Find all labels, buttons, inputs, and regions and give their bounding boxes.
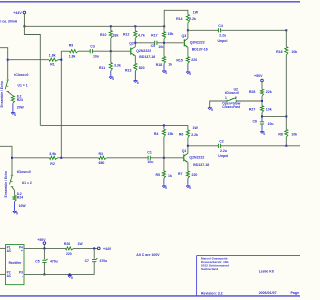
svg-text:3.3k: 3.3k	[114, 63, 121, 67]
wire C6 to ground	[261, 125, 263, 131]
svg-text:C4: C4	[218, 24, 223, 28]
resistor R6 2.2k 1W	[187, 125, 189, 130]
wire R6 to Q1 collector	[187, 138, 189, 146]
svg-text:Q2N2222: Q2N2222	[189, 156, 204, 160]
ground 0 (U2)	[209, 107, 211, 108]
svg-text:R4: R4	[154, 132, 159, 136]
svg-text:3.9k: 3.9k	[49, 152, 56, 156]
wire input A from left edge	[0, 48, 8, 80]
node Q1 collector	[187, 145, 189, 147]
node C4/R16 corner	[285, 29, 287, 31]
wire to R2	[12, 157, 50, 159]
resistor R11 3.3k	[110, 51, 112, 62]
resistor R8 10k	[285, 130, 288, 138]
svg-text:1k: 1k	[168, 174, 172, 178]
svg-text:470u: 470u	[100, 259, 108, 263]
resistor R13 820	[134, 63, 137, 71]
wire Q2 collector to C5	[135, 42, 154, 44]
svg-text:R14: R14	[176, 17, 182, 21]
wire R3 to C1	[107, 157, 148, 159]
svg-text:Switzerland: Switzerland	[201, 267, 218, 271]
svg-text:0: 0	[165, 71, 167, 75]
wire AC in bottom	[0, 273, 6, 275]
svg-text:15k: 15k	[168, 32, 174, 36]
resistor R26 220 1W	[66, 247, 74, 250]
wire C2 to output rail	[221, 145, 300, 147]
svg-text:10u: 10u	[158, 45, 164, 49]
capacitor C4 2.2u Unpol	[217, 28, 219, 32]
wire +44V down	[23, 14, 25, 27]
wire C1 to Q1 base	[150, 157, 183, 159]
ground 0 (R13)	[134, 79, 136, 80]
svg-text:0: 0	[14, 113, 16, 117]
power terminal +44V (supply)	[98, 247, 101, 250]
transistor Q1 Q2N2222 BD137-16	[183, 154, 185, 161]
wire +44V jog down	[24, 26, 40, 125]
switch U1-2 tClose	[11, 174, 13, 176]
wire +44V mid rail	[40, 124, 188, 126]
resistor R27 10k	[260, 106, 263, 113]
title block box	[197, 255, 300, 257]
svg-text:Close=Fast: Close=Fast	[222, 105, 241, 109]
svg-text:+50V: +50V	[37, 238, 46, 242]
wire R27 to node B	[261, 113, 263, 117]
svg-text:R1: R1	[50, 62, 55, 66]
svg-text:680: 680	[99, 161, 105, 165]
power terminal +44V (top)	[23, 11, 26, 14]
resistor R9 1.8k	[70, 50, 79, 53]
svg-text:0: 0	[211, 108, 213, 112]
wire C7 to bottom rail	[24, 262, 94, 274]
schematic page border bottom	[0, 295, 300, 297]
svg-text:2: 2	[235, 96, 237, 100]
svg-text:22k: 22k	[266, 90, 272, 94]
svg-text:1.8k: 1.8k	[49, 54, 56, 58]
svg-text:R16: R16	[276, 50, 282, 54]
svg-text:tClose=0: tClose=0	[17, 170, 31, 174]
svg-text:0: 0	[189, 72, 191, 76]
node R4 top	[163, 124, 165, 126]
svg-text:R18: R18	[156, 63, 162, 67]
node Q2 collector	[134, 42, 136, 44]
wire Q1 emitter to R7	[187, 162, 189, 171]
svg-text:R5: R5	[156, 173, 161, 177]
svg-text:33k: 33k	[113, 34, 119, 38]
wire +50V to R28	[261, 82, 263, 90]
wire rail jog over R14	[164, 10, 188, 26]
node input B	[11, 157, 13, 159]
ground 0 (R18)	[163, 70, 165, 71]
svg-text:C2: C2	[219, 140, 224, 144]
wire C5 to Q3 base	[157, 42, 184, 44]
wire R28 to R27	[261, 96, 263, 106]
capacitor C5 470u (reservoir)	[43, 248, 45, 259]
resistor R7 220	[186, 171, 189, 178]
svg-text:10u: 10u	[268, 122, 274, 126]
rectifier block	[6, 245, 25, 285]
resistor R28 22k	[260, 89, 263, 96]
svg-text:1W: 1W	[193, 10, 199, 14]
svg-text:Q2N2222: Q2N2222	[136, 49, 151, 53]
wire R26 to +44V node	[74, 247, 98, 249]
wire R14 to Q3 collector	[187, 23, 189, 30]
svg-text:10k: 10k	[291, 133, 297, 137]
svg-text:Q3: Q3	[182, 34, 187, 38]
wire rectifier + rail	[24, 247, 66, 249]
svg-text:1W: 1W	[193, 126, 199, 130]
power terminal +50V (mid)	[261, 79, 264, 82]
svg-text:0: 0	[189, 186, 191, 190]
svg-text:+: +	[21, 249, 23, 253]
transistor Q2 Q2N2222 BD137-16	[130, 48, 132, 55]
svg-text:R10: R10	[100, 33, 106, 37]
node R17/R18 divider	[163, 42, 165, 44]
svg-text:R26: R26	[64, 242, 70, 246]
svg-text:10k: 10k	[266, 108, 272, 112]
svg-text:0: 0	[71, 276, 73, 280]
resistor R4 15k	[163, 125, 165, 129]
wire AC in top	[0, 247, 6, 249]
wire R9 to C3	[79, 50, 91, 52]
wire R2 to mix node	[58, 157, 62, 159]
node mix bottom	[60, 157, 62, 159]
svg-text:Unpol: Unpol	[218, 154, 228, 158]
ground 0 (R7)	[187, 185, 189, 186]
wire Q3 emitter to R15	[187, 47, 189, 57]
svg-text:R13: R13	[125, 68, 131, 72]
wire U2 pin1 to ground	[210, 101, 227, 107]
svg-text:BD137-16: BD137-16	[192, 48, 208, 52]
svg-text:Q1: Q1	[182, 149, 187, 153]
wire R8 to output rail	[285, 137, 287, 146]
node R10 top	[110, 25, 112, 27]
switch U1-1 tClose	[7, 79, 9, 81]
svg-text:15k: 15k	[168, 132, 174, 136]
svg-text:C1: C1	[147, 150, 152, 154]
svg-text:470u: 470u	[50, 259, 58, 263]
svg-text:1W: 1W	[78, 242, 84, 246]
capacitor C6 10u	[261, 116, 263, 121]
svg-text:220: 220	[66, 252, 72, 256]
wire R23 to ground	[12, 103, 14, 111]
svg-text:820: 820	[139, 66, 145, 70]
svg-text:R24: R24	[17, 195, 23, 199]
wire +44V rail (top)	[24, 25, 164, 27]
svg-text:BD137-16: BD137-16	[193, 163, 209, 167]
wire to R1	[8, 59, 49, 61]
wire mix vertical	[60, 51, 62, 158]
node +44V rail junction	[23, 25, 25, 27]
svg-text:1: 1	[225, 96, 227, 100]
svg-text:+44V: +44V	[13, 11, 22, 15]
svg-text:2.2u: 2.2u	[219, 34, 226, 38]
wire R18 to ground	[163, 64, 165, 70]
node +44V supply	[93, 247, 95, 249]
svg-text:R9: R9	[69, 44, 74, 48]
capacitor C2 2.2u Unpol	[217, 144, 219, 148]
svg-text:BD137-16: BD137-16	[139, 55, 155, 59]
svg-text:20W: 20W	[17, 105, 25, 109]
resistor R17 15k	[163, 26, 165, 31]
wire R1 to mix node	[58, 59, 61, 61]
svg-text:4.7k: 4.7k	[138, 33, 145, 37]
svg-text:2.2k: 2.2k	[189, 17, 196, 21]
wire node B to R16/R8	[262, 115, 286, 117]
capacitor C7 470u	[93, 248, 95, 258]
wire C4 to R16	[221, 29, 287, 31]
resistor R3 680	[99, 156, 107, 159]
resistor R5 1k	[163, 158, 165, 171]
wire R15 to ground	[187, 63, 189, 70]
svg-text:Q2: Q2	[129, 41, 134, 45]
node C5 bottom	[43, 273, 45, 275]
node rail end / R17 top	[163, 25, 165, 27]
wire Q2 collector	[134, 43, 136, 47]
svg-text:10W: 10W	[19, 204, 27, 208]
svg-text:10u: 10u	[93, 54, 99, 58]
svg-text:Revision: 3.2: Revision: 3.2	[201, 291, 223, 295]
ground 0 (R15)	[187, 71, 189, 72]
svg-text:-: -	[22, 274, 23, 278]
svg-text:C3: C3	[90, 45, 95, 49]
resistor R24 8.2 10W	[13, 196, 16, 202]
svg-text:U1 = 2: U1 = 2	[22, 181, 32, 185]
capacitor C1 10u	[147, 156, 149, 160]
svg-text:Q2N2222: Q2N2222	[190, 41, 205, 45]
wire C3 to Q2 base	[92, 50, 130, 52]
svg-text:C5: C5	[35, 259, 39, 263]
resistor R10 33k	[110, 26, 112, 30]
wire mix to R3	[61, 157, 98, 159]
wire R11 to ground	[110, 71, 112, 76]
svg-text:Ensemble / Echo: Ensemble / Echo	[4, 171, 8, 197]
capacitor C3 10u	[89, 49, 91, 53]
resistor R15 220	[186, 57, 189, 64]
svg-text:0: 0	[165, 186, 167, 190]
power terminal +50V (supply)	[43, 242, 46, 245]
node R10/R11 divider	[110, 50, 112, 52]
resistor R23 8.2 20W	[11, 96, 14, 104]
node mix B	[285, 115, 287, 117]
svg-text:0: 0	[16, 212, 18, 216]
svg-text:R11: R11	[99, 66, 105, 70]
svg-text:R7: R7	[178, 172, 183, 176]
svg-text:220: 220	[192, 173, 198, 177]
node B	[261, 115, 263, 117]
ground 0 (supply)	[69, 274, 71, 275]
wire switch to R24	[12, 187, 15, 191]
svg-text:R2: R2	[50, 162, 55, 166]
svg-text:R3: R3	[99, 152, 104, 156]
svg-text:1.8k: 1.8k	[69, 55, 76, 59]
svg-text:220: 220	[191, 58, 197, 62]
capacitor C5 10u	[154, 41, 156, 45]
resistor R12 4.7k	[134, 26, 136, 31]
svg-text:R12: R12	[123, 33, 129, 37]
wire U2 pin2 to divider	[236, 100, 262, 102]
svg-text:R28: R28	[249, 90, 255, 94]
node R1 tap	[60, 59, 62, 61]
wire to R9	[61, 50, 69, 52]
svg-text:Page: Page	[291, 291, 300, 295]
wire Q1 collector up	[187, 146, 189, 154]
node output rail	[285, 145, 287, 147]
node R4/R5 divider	[163, 157, 165, 159]
wire Q2 emitter to R13	[134, 56, 136, 64]
svg-text:tClose=0: tClose=0	[14, 73, 28, 77]
wire R5 to ground	[163, 178, 165, 184]
resistor R2 3.9k	[50, 156, 58, 159]
svg-text:R15: R15	[176, 59, 182, 63]
resistor R14 2.2k 1W	[186, 15, 189, 24]
svg-text:All C are 100V: All C are 100V	[136, 253, 160, 257]
schematic page border top	[0, 1, 300, 3]
svg-text:0: 0	[137, 81, 139, 85]
svg-text:R8: R8	[278, 133, 283, 137]
svg-text:C6: C6	[253, 120, 258, 124]
svg-text:Rectifier: Rectifier	[9, 261, 23, 265]
ground 0 (R23)	[12, 111, 14, 112]
svg-text:C5: C5	[151, 44, 156, 48]
svg-text:0: 0	[112, 77, 114, 81]
svg-text:R17: R17	[151, 34, 157, 38]
svg-text:Unpol: Unpol	[218, 39, 228, 43]
ground 0 (R11)	[110, 76, 112, 77]
svg-text:10k: 10k	[291, 50, 297, 54]
wire R24 to ground	[14, 202, 16, 211]
wire Q1 collector to C2	[188, 145, 219, 147]
svg-text:10u: 10u	[147, 160, 153, 164]
svg-text:0: 0	[263, 132, 265, 136]
node R12 top	[134, 25, 136, 27]
resistor R16 10k	[285, 30, 287, 46]
node input A	[7, 59, 9, 61]
svg-text:2006/01/07: 2006/01/07	[259, 291, 277, 295]
svg-text:2.2k: 2.2k	[191, 133, 198, 137]
resistor R1 1.8k	[49, 58, 58, 61]
svg-text:R27: R27	[249, 107, 255, 111]
svg-text:I ca. 30mA: I ca. 30mA	[0, 19, 17, 23]
svg-text:C7: C7	[85, 259, 89, 263]
svg-text:2.2u: 2.2u	[220, 149, 227, 153]
wire switch to R23	[8, 92, 13, 96]
ground 0 (C6)	[261, 130, 263, 131]
node +50V	[43, 247, 45, 249]
svg-text:1k: 1k	[168, 62, 172, 66]
svg-text:AC: AC	[7, 274, 12, 278]
switch U2 tClose	[226, 100, 228, 102]
wire R13 to ground	[134, 71, 136, 79]
transistor Q3 Q2N2222 BD137-16	[183, 39, 185, 46]
svg-text:+44V: +44V	[103, 247, 112, 251]
node ground tap	[69, 273, 71, 275]
wire R7 to ground	[187, 178, 189, 184]
wire input B from left edge	[0, 146, 12, 175]
svg-text:+50V: +50V	[254, 74, 263, 78]
node switch tap	[261, 100, 263, 102]
wire Q3 collector to C4	[188, 29, 219, 31]
svg-text:AC: AC	[7, 249, 12, 253]
ground 0 (R5)	[163, 185, 165, 186]
svg-text:R6: R6	[179, 132, 184, 136]
ground 0 (R24)	[14, 210, 16, 211]
svg-text:U1 = 1: U1 = 1	[18, 83, 28, 87]
wire R16 down to mix node	[285, 55, 287, 130]
svg-text:Leslie Kit: Leslie Kit	[259, 269, 275, 273]
svg-text:Ensemble / Echo: Ensemble / Echo	[0, 81, 4, 107]
node Q3 collector	[187, 29, 189, 31]
svg-text:R23: R23	[17, 98, 23, 102]
wire Q3 collector up	[187, 30, 189, 38]
resistor R18 1k	[163, 43, 165, 57]
svg-text:tClose=0: tClose=0	[225, 91, 239, 95]
